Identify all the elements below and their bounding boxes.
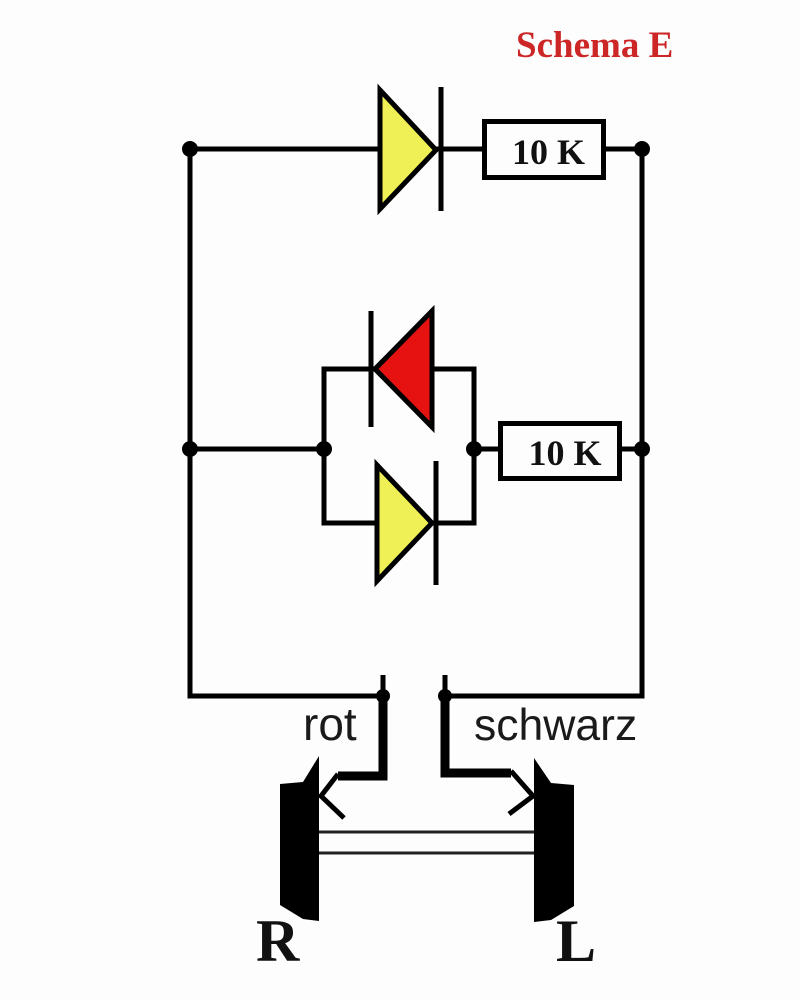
svg-text:L: L	[556, 908, 596, 974]
svg-text:10 K: 10 K	[512, 132, 585, 172]
svg-text:Schema E: Schema E	[516, 25, 673, 66]
svg-text:R: R	[256, 908, 300, 974]
svg-text:rot: rot	[303, 698, 357, 750]
svg-text:10 K: 10 K	[528, 433, 601, 473]
svg-text:schwarz: schwarz	[474, 701, 637, 750]
